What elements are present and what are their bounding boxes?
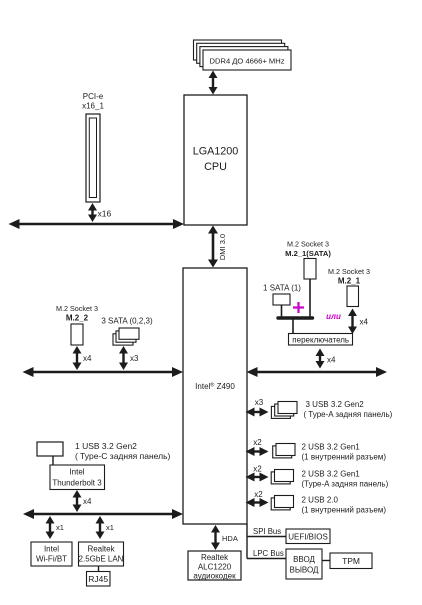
svg-text:Wi-Fi/BT: Wi-Fi/BT <box>36 555 67 564</box>
svg-text:LGA1200: LGA1200 <box>193 146 239 158</box>
M.2_1(SATA) slot <box>304 259 316 280</box>
wire: bus to LAN double arrow x1 <box>96 516 105 539</box>
wire: DMI 3.0 double arrow CPU to Z490 <box>208 226 218 268</box>
svg-text:M.2_2: M.2_2 <box>66 314 89 323</box>
wire: junction to switch <box>292 318 294 334</box>
svg-text:x2: x2 <box>253 438 262 447</box>
wire: DDR4 to CPU double arrow <box>209 71 218 95</box>
USB 3.2 Gen1 internal ports stack <box>273 444 295 458</box>
wire: LAN to RJ45 <box>98 566 100 572</box>
svg-text:3 SATA (0,2,3): 3 SATA (0,2,3) <box>101 317 153 326</box>
svg-text:M.2_1(SATA): M.2_1(SATA) <box>285 249 331 258</box>
USB 3.2 Gen1 rear ports stack <box>271 470 293 484</box>
USB Type-C port <box>37 442 63 456</box>
svg-text:(1 внутренний разъем): (1 внутренний разъем) <box>302 506 387 515</box>
M.2_1 slot <box>347 286 359 307</box>
wire: bus to WiFi double arrow x1 <box>46 516 55 539</box>
svg-text:CPU: CPU <box>204 161 227 173</box>
svg-text:x4: x4 <box>360 318 369 327</box>
wire: LPC bus line <box>247 558 286 560</box>
svg-text:или: или <box>326 312 341 321</box>
wire: M.2_1 to switch double arrow x4 <box>348 309 357 335</box>
svg-text:M.2 Socket 3: M.2 Socket 3 <box>328 267 370 276</box>
TPM box <box>330 553 372 569</box>
wire: switch to bus double arrow x4 <box>316 349 325 369</box>
Realtek 2.5GbE LAN box <box>79 542 124 566</box>
svg-text:2 USB 2.0: 2 USB 2.0 <box>302 496 339 505</box>
svg-text:DMI 3.0: DMI 3.0 <box>218 234 227 260</box>
wire: Z490 to audio codec double arrow HDA <box>211 525 220 550</box>
wire: Thunderbolt to bus double arrow x4 <box>73 490 82 512</box>
svg-text:M.2_1: M.2_1 <box>338 277 361 286</box>
svg-text:x3: x3 <box>130 354 139 363</box>
svg-text:(1 внутренний разъем): (1 внутренний разъем) <box>302 453 387 462</box>
svg-text:HDA: HDA <box>222 534 238 543</box>
svg-text:x3: x3 <box>255 398 264 407</box>
svg-text:ВВОД: ВВОД <box>293 555 315 564</box>
svg-text:аудиокодек: аудиокодек <box>193 572 236 581</box>
DDR4 memory module stack <box>194 40 292 70</box>
svg-text:x16_1: x16_1 <box>82 102 104 111</box>
wire: SPI bus line <box>247 536 286 538</box>
svg-text:PCI-e: PCI-e <box>83 92 104 101</box>
svg-text:Realtek: Realtek <box>87 545 115 554</box>
svg-text:2 USB 3.2 Gen1: 2 USB 3.2 Gen1 <box>302 443 361 452</box>
svg-text:3 USB 3.2 Gen2: 3 USB 3.2 Gen2 <box>306 400 365 409</box>
svg-text:( Type-C задняя панель): ( Type-C задняя панель) <box>75 451 170 461</box>
svg-text:2 USB 3.2 Gen1: 2 USB 3.2 Gen1 <box>302 470 361 479</box>
svg-text:x2: x2 <box>253 465 262 474</box>
svg-text:x4: x4 <box>327 356 336 365</box>
svg-text:SPI Bus: SPI Bus <box>253 527 281 536</box>
bus: Z490 bottom-left peripherals horizontal double arrow <box>23 509 183 519</box>
Realtek ALC1220 audio codec box <box>188 551 241 581</box>
svg-text:UEFI/BIOS: UEFI/BIOS <box>288 533 328 542</box>
wire: SATA1 to junction <box>281 305 283 317</box>
wire: USB 3.2 Gen1 internal double arrow <box>246 447 269 456</box>
wire: I/O to TPM <box>322 560 330 562</box>
svg-text:x1: x1 <box>106 523 114 532</box>
svg-text:(Type-A задняя панель): (Type-A задняя панель) <box>302 480 389 489</box>
wire: USB 3.2 Gen1 rear double arrow <box>246 473 269 482</box>
chipset box Intel Z490 <box>183 268 247 524</box>
svg-text:1 SATA (1): 1 SATA (1) <box>263 284 301 293</box>
svg-text:Intel® Z490: Intel® Z490 <box>195 382 235 392</box>
RJ45 box <box>87 572 111 587</box>
junction bar <box>278 316 313 319</box>
svg-text:DDR4 ДО 4666+ MHz: DDR4 ДО 4666+ MHz <box>210 57 285 66</box>
svg-text:x16: x16 <box>98 209 112 219</box>
PCIe x16 slot <box>86 114 100 202</box>
wire: USB 3.2 Gen2 double arrow <box>246 408 269 417</box>
svg-text:ВЫВОД: ВЫВОД <box>290 566 320 575</box>
svg-text:1 USB 3.2 Gen2: 1 USB 3.2 Gen2 <box>75 441 137 451</box>
svg-text:RJ45: RJ45 <box>88 574 108 584</box>
wire: Z490 SPI/LPC riser <box>246 524 248 559</box>
Intel Wi-Fi/BT box <box>31 542 72 566</box>
svg-text:x2: x2 <box>254 490 263 499</box>
wire: SATA to bus double arrow x3 <box>119 346 128 370</box>
svg-text:M.2 Socket 3: M.2 Socket 3 <box>56 304 98 313</box>
CPU box LGA1200 <box>184 95 247 225</box>
SATA ports stack (0,2,3) <box>113 328 139 345</box>
wire: Type-C to Thunderbolt <box>52 456 54 465</box>
svg-text:ТРМ: ТРМ <box>342 556 360 566</box>
svg-text:x4: x4 <box>83 354 92 363</box>
svg-text:2.5GbE LAN: 2.5GbE LAN <box>79 555 124 564</box>
bus: Z490 right storage horizontal double arrow <box>247 367 388 377</box>
svg-text:Intel: Intel <box>69 468 84 477</box>
wire: M.2_1(SATA) to junction <box>309 279 311 317</box>
svg-text:x4: x4 <box>83 497 92 506</box>
svg-text:ALC1220: ALC1220 <box>198 563 232 572</box>
I/O controller box ВВОД ВЫВОД <box>286 549 322 579</box>
bus: CPU PCIe x16 horizontal double arrow <box>9 219 185 229</box>
wire: PCIe slot to bus double arrow x16 <box>88 203 97 222</box>
USB 3.2 Gen2 ports stack <box>271 402 297 419</box>
svg-text:LPC Bus: LPC Bus <box>253 549 284 558</box>
SATA port 1 <box>273 294 290 305</box>
svg-text:Realtek: Realtek <box>201 553 229 562</box>
svg-text:Thunderbolt 3: Thunderbolt 3 <box>52 478 102 487</box>
bus: Z490 left peripherals horizontal double arrow <box>23 367 184 377</box>
USB 2.0 ports stack <box>271 496 293 510</box>
svg-text:переключатель: переключатель <box>292 336 349 345</box>
svg-text:x1: x1 <box>56 523 64 532</box>
M.2_2 slot <box>71 324 83 345</box>
wire: USB 2.0 double arrow <box>246 498 269 507</box>
svg-text:M.2 Socket 3: M.2 Socket 3 <box>287 240 329 249</box>
svg-text:Intel: Intel <box>44 545 59 554</box>
switch box переключатель <box>289 334 353 346</box>
Intel Thunderbolt 3 box <box>50 465 105 490</box>
plus sign (magenta) <box>293 302 304 313</box>
UEFI/BIOS box <box>286 529 330 544</box>
wire: M.2_2 to bus double arrow x4 <box>73 346 82 370</box>
svg-text:( Type-A задняя панель): ( Type-A задняя панель) <box>304 410 393 419</box>
